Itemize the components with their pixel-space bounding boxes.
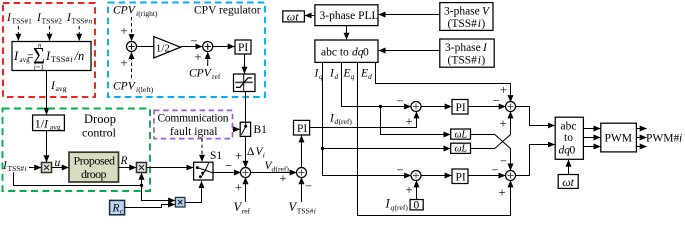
svg-text:S1: S1: [210, 150, 222, 162]
svg-text:i: i: [263, 151, 265, 160]
block PI voltage: [294, 120, 310, 135]
svg-text:(ref): (ref): [395, 203, 409, 212]
wire abc3 to PWM line1: [583, 128, 600, 130]
label V_TSS#i: [289, 200, 316, 216]
summer1: [241, 168, 251, 178]
junction dot I_d: [379, 105, 382, 108]
svg-text:3-phase: 3-phase: [444, 6, 480, 18]
svg-text:−: −: [225, 159, 232, 173]
wire summer to gain triangle: [137, 46, 154, 48]
block 3-phase V: [440, 3, 493, 31]
title CPV regulator: [194, 5, 261, 17]
label E_q: [343, 68, 355, 82]
svg-text:/n: /n: [74, 49, 85, 63]
block PI cpv: [235, 40, 251, 54]
svg-text:1/2: 1/2: [156, 43, 170, 55]
multiplier2 box: [137, 163, 147, 173]
svg-text:ωL: ωL: [455, 130, 468, 141]
svg-text:PWM: PWM: [605, 133, 632, 145]
wire PI d to summerTR: [468, 106, 506, 108]
wire omega-t up into abc3: [568, 160, 570, 175]
svg-text:E: E: [360, 68, 368, 80]
wire zero up into summerBL: [416, 181, 418, 200]
label plus bottom summerTR: [500, 117, 507, 131]
label u: [55, 157, 61, 169]
svg-text:Δ: Δ: [247, 146, 254, 158]
wire Rc to blue multiplier: [125, 205, 175, 208]
svg-text:n: n: [89, 17, 93, 26]
block omega-L 1: [451, 129, 471, 141]
svg-text:(ref): (ref): [339, 117, 353, 126]
label minus left summerBR: [492, 163, 499, 177]
svg-text:0: 0: [363, 47, 369, 59]
wire E_q down along bottom and up into summerBR: [358, 62, 511, 215]
svg-text:−: −: [493, 94, 500, 108]
svg-text:CPV: CPV: [113, 81, 137, 93]
svg-text:to: to: [564, 132, 573, 144]
green dashed box: [3, 109, 151, 192]
wire PI q to summerBR: [468, 175, 505, 177]
wire multiplier2 to switch S1: [147, 167, 194, 169]
wire dashed CPV left into summer: [131, 52, 133, 78]
multiplier1 box: [42, 163, 52, 173]
svg-text:d: d: [335, 72, 339, 81]
wire comm to B1: [233, 128, 240, 130]
label PWM#i: [646, 133, 682, 145]
wire PI down to limiter: [244, 54, 246, 74]
label minus: [191, 34, 198, 48]
label minus summerBL: [397, 163, 404, 177]
block 1/Iavg: [33, 115, 65, 132]
label I_TSS#1: [6, 12, 32, 26]
svg-text:B1: B1: [254, 124, 268, 136]
blue multiplier box: [175, 197, 185, 207]
label I_TSS#2: [36, 12, 62, 26]
svg-text:dq: dq: [352, 47, 364, 59]
label minus summerTR: [493, 94, 500, 108]
wire dashed arrow 1 into averaging block: [17, 26, 19, 41]
label plus lower: [121, 56, 128, 70]
svg-text:PI: PI: [297, 123, 307, 135]
svg-text:ωL: ωL: [455, 144, 468, 155]
label minus summer2: [305, 179, 312, 193]
wire PWM out arrow3: [636, 146, 646, 148]
svg-text:−: −: [305, 179, 312, 193]
svg-text:(right): (right): [138, 9, 158, 18]
svg-text:d: d: [368, 72, 372, 81]
svg-text:(TSS#: (TSS#: [448, 55, 478, 67]
block abc to dq0 output: [555, 117, 583, 159]
label minus summerTL: [397, 94, 404, 108]
title Communication fault ignal: [158, 112, 229, 138]
svg-text:TSS#: TSS#: [8, 164, 25, 173]
svg-text:=1: =1: [36, 63, 44, 72]
svg-text:Droop: Droop: [84, 112, 116, 126]
title Droop control: [82, 112, 117, 140]
svg-text:+: +: [499, 186, 506, 200]
svg-text:CPV: CPV: [189, 68, 213, 80]
block proposed droop: [69, 152, 119, 182]
svg-text:TSS#2: TSS#2: [42, 17, 63, 26]
wire proposed droop to multiplier2: [119, 167, 137, 169]
svg-text:Proposed: Proposed: [74, 154, 116, 168]
label plus: [195, 50, 202, 64]
svg-text:PI: PI: [456, 102, 466, 114]
label minus: [225, 159, 232, 173]
svg-text:(TSS#: (TSS#: [448, 18, 478, 30]
wire PWM out arrow2: [636, 137, 646, 139]
label V_d(ref): [265, 160, 290, 174]
svg-text:Communication: Communication: [158, 112, 229, 124]
svg-text:−: −: [500, 154, 507, 168]
wire 3phaseV to PLL: [379, 14, 440, 16]
wire V_ref up into summer1: [245, 178, 247, 203]
summer top-right: [506, 102, 516, 112]
wire PWM out arrow1: [636, 128, 646, 130]
svg-text:ωt: ωt: [562, 175, 574, 189]
label B1: [254, 124, 268, 136]
label I_d: [329, 68, 339, 82]
svg-text:CPV: CPV: [113, 5, 137, 17]
wire Iavg down to droop block: [46, 71, 48, 115]
wire E_d down right and into summerTR top: [376, 62, 511, 102]
label I_TSS#n: [66, 12, 93, 26]
wire abc3 to PWM line2: [583, 137, 600, 139]
svg-text:): ): [481, 55, 485, 67]
svg-text:+: +: [195, 50, 202, 64]
svg-text:fault ignal: fault ignal: [170, 126, 218, 138]
wire abc3 to PWM line3: [583, 146, 600, 148]
svg-text:dq: dq: [559, 145, 571, 157]
wire I_d branch down to wL1: [381, 107, 451, 135]
svg-text:n: n: [38, 42, 42, 50]
block omega-L 2: [451, 143, 471, 155]
wire dashed comm down to S1: [201, 139, 203, 162]
summer bottom-right: [506, 171, 516, 181]
switch B1: [240, 122, 250, 136]
svg-text:+: +: [406, 115, 413, 129]
junction dot feedback: [140, 184, 143, 187]
wire feedback up into multiplier2: [141, 173, 143, 186]
wire wL2 cross up to summerTR: [471, 112, 511, 149]
svg-text:−: −: [191, 34, 198, 48]
svg-text:ref: ref: [242, 207, 251, 216]
label I_q: [314, 68, 324, 82]
purple dashed box: [154, 110, 233, 138]
svg-text:TSS#1: TSS#1: [12, 17, 33, 26]
block averaging equation Iavg: [12, 42, 91, 72]
svg-text:TSS#: TSS#: [51, 54, 71, 64]
wire 1/Iavg down to multiplier1: [46, 131, 48, 162]
svg-text:PI: PI: [238, 42, 248, 54]
wire 3phaseI to abc-dq0: [379, 50, 440, 52]
svg-text:+: +: [280, 172, 287, 186]
label plus bottom summerBL: [406, 183, 413, 197]
svg-text:avg: avg: [50, 123, 61, 132]
junction dot I_q: [321, 147, 324, 150]
svg-text:3-phase PLL: 3-phase PLL: [320, 10, 379, 22]
label I_d(ref): [329, 113, 352, 127]
wire I_TSS#i feedback branch down and right: [14, 172, 142, 185]
svg-text:(left): (left): [138, 85, 153, 94]
summer CPV2: [203, 42, 213, 52]
gain block 1/2: [154, 37, 181, 59]
wire summer2 to PI: [213, 46, 235, 48]
wire I_TSS#i to multiplier1: [29, 167, 41, 169]
svg-text:−: −: [492, 163, 499, 177]
wire I_q down junction right to wL2 and down to summerBL: [322, 62, 324, 148]
svg-text:0: 0: [570, 145, 576, 157]
wire gain to summer2: [181, 46, 203, 48]
wire dashed CPV right into summer: [131, 17, 133, 41]
label plus bottom summerTL: [406, 115, 413, 129]
svg-text:E: E: [343, 68, 351, 80]
cyan dashed box: [108, 3, 265, 98]
svg-text:control: control: [82, 126, 117, 140]
svg-text:−: −: [397, 94, 404, 108]
svg-text:3-phase: 3-phase: [445, 42, 481, 54]
block saturation limiter: [234, 74, 256, 92]
red dashed box: [3, 3, 95, 97]
label I_avg: [50, 80, 67, 93]
svg-text:+: +: [500, 117, 507, 131]
summer top-left: [411, 102, 421, 112]
wire feedback down to blue multiplier: [142, 186, 175, 201]
label E_d: [360, 68, 372, 82]
svg-text:+: +: [500, 83, 507, 97]
wire CPV_ref up into summer2: [207, 52, 209, 66]
svg-text:): ): [481, 18, 485, 30]
label V_ref: [234, 200, 251, 216]
svg-text:+: +: [235, 181, 242, 195]
wire S1 to summer1: [213, 172, 241, 174]
svg-text:droop: droop: [81, 167, 107, 181]
wire summerBL to PI q: [421, 175, 451, 177]
block abc to dq0 top: [315, 40, 378, 62]
wire V_TSS#i up into summer2: [301, 178, 303, 203]
svg-text:−: −: [397, 163, 404, 177]
svg-text:+: +: [121, 24, 128, 38]
wire PLL down to abc-dq0: [346, 26, 348, 40]
wire dashed arrow 3 into averaging block: [78, 26, 80, 41]
svg-text:avg: avg: [56, 84, 67, 93]
label delta V_i: [247, 146, 265, 160]
label plus left summer2: [280, 172, 287, 186]
label minus top summerBR: [500, 154, 507, 168]
wire PLL to omega-t: [305, 15, 315, 17]
wire summerTR output to abc3 input1: [516, 107, 555, 126]
svg-text:I: I: [13, 49, 19, 63]
wire limiter down to B1: [245, 92, 247, 123]
wire dashed arrow 2 into averaging block: [49, 26, 51, 41]
wire B1 down to summer1: [245, 136, 247, 167]
svg-text:R: R: [112, 203, 120, 215]
label S1: [210, 150, 222, 162]
svg-text:i: i: [24, 164, 26, 173]
block PI d: [452, 100, 468, 115]
svg-text:R: R: [120, 155, 128, 167]
label CPV_i(right): [113, 5, 158, 19]
svg-text:i: i: [314, 207, 316, 216]
block omega-t top: [283, 9, 305, 23]
label R: [120, 155, 128, 167]
block 3-phase PLL: [315, 5, 379, 26]
wire summer2 up into PI voltage: [301, 136, 303, 168]
label plus bottom summerBR: [499, 186, 506, 200]
svg-text:+: +: [121, 56, 128, 70]
label CPV_ref: [189, 68, 221, 82]
svg-text:PI: PI: [456, 172, 466, 184]
label CPV_i(left): [113, 81, 154, 95]
block zero: [410, 200, 423, 212]
label plus upper: [121, 24, 128, 38]
svg-text:abc: abc: [561, 121, 577, 133]
block PWM: [601, 123, 637, 152]
wire blue multiplier up into S1: [185, 181, 202, 202]
block 3-phase I: [440, 39, 494, 67]
label plus top summerTR: [500, 83, 507, 97]
wire multiplier1 to proposed droop: [52, 167, 69, 169]
svg-text:+: +: [406, 183, 413, 197]
svg-text:i: i: [679, 133, 682, 145]
block PI q: [452, 169, 468, 184]
svg-text:abc to: abc to: [321, 47, 349, 59]
summer CPV: [127, 42, 137, 52]
svg-text:+: +: [235, 149, 242, 163]
block omega-t bottom: [558, 175, 578, 189]
label plus top of summer1: [235, 149, 242, 163]
summer2 voltage: [297, 168, 307, 178]
wire summerBR output to abc3 input2: [516, 145, 555, 176]
label I_q(ref): [385, 197, 409, 213]
wire I_d down and right to summerTL: [342, 62, 411, 106]
label plus bottom summer1: [235, 181, 242, 195]
svg-text:ωt: ωt: [287, 9, 299, 23]
svg-text:ref: ref: [212, 72, 221, 81]
svg-text:CPV regulator: CPV regulator: [194, 5, 261, 17]
wire summerTL to PI d: [421, 106, 451, 108]
switch S1: [194, 162, 213, 180]
block Rc: [110, 200, 125, 215]
wire wL1 cross down to summerBR: [471, 135, 511, 171]
svg-text:PWM#: PWM#: [646, 133, 679, 145]
svg-text:0: 0: [414, 200, 420, 212]
svg-text:TSS#: TSS#: [297, 207, 314, 216]
wire I_d(ref) from PI voltage to summerTL: [310, 112, 417, 128]
wire I_q to summerBL: [323, 149, 411, 176]
wire summer1 to summer2: [251, 172, 297, 174]
summer bottom-left: [411, 171, 421, 181]
svg-text:q: q: [351, 72, 355, 81]
label I_TSS#i input: [2, 160, 26, 173]
svg-text:TSS#: TSS#: [72, 17, 89, 26]
